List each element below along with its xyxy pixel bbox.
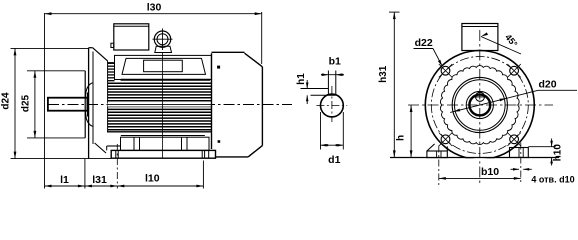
right view base line — [390, 157, 559, 159]
terminal box platform — [115, 55, 212, 79]
dimension l1 extension right — [84, 159, 86, 189]
base plate — [111, 150, 215, 158]
eye bolt cross vertical — [162, 29, 164, 51]
fin tips scalloped circle — [440, 66, 519, 145]
svg-text:d24: d24 — [1, 92, 12, 110]
bearing cap arc top — [85, 83, 93, 98]
end shield bolt hole 1 — [441, 66, 450, 75]
dimension d24 extension bottom — [11, 158, 112, 160]
svg-text:4 отв. d10: 4 отв. d10 — [531, 174, 574, 184]
fan cowl right edge — [261, 67, 263, 146]
dimension d24 extension top — [11, 47, 89, 49]
dimension b1 line — [321, 74, 344, 76]
d20 leader shelf — [538, 89, 577, 91]
end shield bolt hole 4 — [510, 135, 519, 144]
dimension h line — [410, 105, 412, 157]
dimension d20 line through center — [450, 98, 506, 112]
lifting eye bolt outer ring — [154, 31, 170, 47]
right view center line horizontal — [408, 104, 553, 106]
end shield boss inner circle — [455, 80, 506, 131]
left foot hole edge lines — [436, 151, 438, 158]
foot rib line 3 — [181, 137, 183, 150]
svg-text:l10: l10 — [145, 173, 160, 185]
motor body rear edge — [211, 53, 213, 149]
dimension h31 line — [393, 12, 395, 157]
dimension h1 upper arrow — [306, 80, 308, 89]
vertical section line through motor — [162, 53, 164, 159]
center line gap through fins — [108, 103, 212, 107]
foot web line — [121, 135, 205, 137]
svg-text:d22: d22 — [415, 37, 433, 49]
key right side — [335, 71, 337, 96]
end shield front edge — [88, 48, 90, 159]
right foot hole center line — [520, 143, 522, 184]
dimension d25 line — [34, 71, 36, 138]
end shield top chamfer — [93, 48, 108, 61]
left foot inner edge — [446, 146, 448, 151]
dimension d1 extension left — [320, 112, 322, 150]
dimension d24 line — [14, 48, 16, 158]
frame fins left boundary — [107, 61, 109, 132]
terminal box (front view) — [462, 24, 498, 51]
keyway chord — [474, 96, 487, 98]
45deg leader — [481, 37, 521, 55]
terminal box platform bottom thick line — [121, 79, 211, 81]
top ledge to platform — [108, 62, 115, 64]
bolt circle (dash-dot) — [431, 57, 528, 154]
dimension d25 extension bottom — [27, 137, 85, 139]
fan cowl bottom line — [216, 156, 249, 158]
d22 leader shelf — [414, 48, 434, 50]
bearing cap circle — [466, 91, 493, 118]
svg-text:d20: d20 — [538, 79, 556, 91]
foot web outline — [121, 137, 210, 150]
end shield bolt hole 3 — [441, 135, 450, 144]
front end shield to foot diagonal — [95, 143, 106, 153]
dimension l30 extension line right — [261, 12, 263, 64]
dimension l30 line — [45, 13, 262, 15]
foot mounting hole left — [115, 150, 117, 158]
foot mounting hole right — [201, 150, 203, 158]
svg-text:l31: l31 — [92, 174, 107, 186]
svg-text:h: h — [395, 135, 406, 141]
motor shaft (side view) — [48, 98, 88, 111]
front foot edge — [107, 145, 121, 147]
eye bolt cross horizontal — [153, 38, 173, 40]
h1 upper extension line — [301, 88, 329, 90]
h10 extension line top — [528, 146, 556, 148]
svg-text:h31: h31 — [378, 65, 389, 83]
dimension l31 line — [85, 185, 117, 187]
right view center line vertical — [479, 30, 481, 184]
key detail center line vertical — [331, 86, 333, 122]
left foot chamfer — [427, 144, 435, 151]
foot hole center line (left view) — [116, 144, 118, 189]
dimension d1 line — [321, 144, 344, 146]
d22 leader line — [433, 49, 441, 65]
right foot (front view) — [510, 148, 529, 158]
key left side — [327, 71, 329, 96]
dimension d1 extension right — [342, 112, 344, 150]
terminal box lid line (front view) — [462, 26, 498, 28]
base plate right step — [208, 150, 210, 158]
key cross-section circle (shaft d1) — [321, 94, 344, 117]
end shield boss outer circle — [452, 77, 507, 132]
terminal box lid line — [114, 25, 149, 27]
shaft center hole circle — [476, 92, 485, 101]
svg-text:b1: b1 — [329, 56, 341, 68]
bearing cap arc bottom — [85, 111, 93, 127]
svg-text:h1: h1 — [296, 73, 307, 85]
h31 top reference tick — [389, 11, 400, 13]
dimension l10 extension right — [202, 161, 204, 189]
stator frame cooling fins — [108, 63, 212, 129]
key detail center line horizontal — [316, 105, 347, 107]
terminal box cable gland — [111, 43, 114, 47]
fan cowl outer circle — [425, 51, 534, 160]
foot rib line 4 — [186, 137, 188, 150]
foot rib line 2 — [139, 137, 141, 150]
eye bolt base — [155, 46, 172, 52]
motor body bottom line — [107, 131, 212, 133]
left foot hole center line — [438, 146, 440, 187]
dimension l30 extension line left / shaft face datum line — [44, 13, 46, 189]
shaft shoulder — [86, 93, 88, 117]
dimension h10 arrows — [551, 139, 553, 147]
svg-text:l30: l30 — [147, 2, 162, 14]
lifting eye bolt inner ring — [157, 34, 168, 45]
dimension d25 extension top — [27, 70, 85, 72]
keyway bottom line — [311, 94, 336, 96]
nameplate trapezoid — [122, 58, 206, 74]
dimension h1 lower arrow — [306, 95, 308, 104]
fan cowl top chamfer — [245, 53, 263, 67]
left foot (front view) — [427, 151, 447, 158]
shaft circle — [469, 95, 490, 116]
terminal box — [114, 24, 149, 50]
svg-text:d1: d1 — [328, 154, 340, 166]
fan cowl screw bottom — [218, 140, 221, 143]
dimension b10 line — [439, 177, 521, 179]
fan cowl top line — [212, 51, 245, 53]
svg-text:h10: h10 — [553, 144, 564, 162]
nameplate rectangle — [144, 60, 183, 71]
right foot hole edge lines — [518, 148, 520, 158]
foot rib line 1 — [133, 137, 135, 150]
d20 leader extension — [507, 90, 538, 98]
svg-text:d25: d25 — [20, 94, 31, 112]
end shield bolt hole 2 — [510, 66, 519, 75]
dimension l10 line — [117, 185, 203, 187]
svg-text:l1: l1 — [60, 174, 69, 186]
end shield inner line — [92, 52, 94, 145]
fan cowl bottom chamfer — [248, 146, 262, 157]
svg-text:b10: b10 — [481, 166, 499, 178]
fan cowl screw top — [217, 66, 220, 69]
axis center line of motor shaft (left view) — [48, 104, 292, 106]
dimension l1 line — [45, 185, 85, 187]
dimension d10 hole arrows — [511, 168, 520, 170]
end shield hub face — [84, 71, 86, 138]
end shield top edge — [89, 47, 93, 49]
